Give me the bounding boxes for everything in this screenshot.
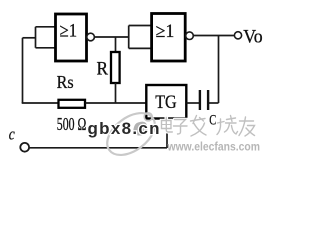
wire: U1 upper input pin <box>36 26 56 28</box>
watermark chinese char 电 <box>162 118 173 133</box>
resistor Rs <box>59 100 86 108</box>
svg-text:Rs: Rs <box>57 72 74 92</box>
svg-text:≥1: ≥1 <box>60 21 78 42</box>
svg-text:≥1: ≥1 <box>156 21 175 42</box>
wire: U2 upper input pin <box>129 25 151 27</box>
U1 output bubble <box>87 33 95 41</box>
svg-text:gbx8.cn: gbx8.cn <box>88 119 161 138</box>
wire: U1 input tie vertical <box>35 27 37 48</box>
svg-text:www.elecfans.com: www.elecfans.com <box>167 140 260 154</box>
node c terminal <box>20 143 29 152</box>
svg-text:C: C <box>209 113 216 129</box>
wire: left rail vertical <box>22 38 24 103</box>
svg-text:TG: TG <box>155 92 177 113</box>
wire: feed to U1 inputs <box>23 37 36 39</box>
svg-text:c: c <box>9 124 15 143</box>
wire: bottom rail <box>29 147 167 149</box>
wire: U2 lower input pin <box>129 47 151 49</box>
svg-text:R: R <box>97 60 109 80</box>
svg-text:500 Ω: 500 Ω <box>57 114 87 134</box>
svg-text:Vo: Vo <box>243 27 263 48</box>
op-amp U1 (OR gate ≥1 box) <box>56 14 87 61</box>
wire: TG bottom lead <box>166 119 168 149</box>
watermark chinese char 烧 <box>217 116 238 135</box>
wire: feedback drop from output node <box>218 36 220 104</box>
wire: U2 output to Vo <box>193 35 234 37</box>
watermark ellipse logo <box>100 105 163 164</box>
resistor R top lead <box>115 37 117 52</box>
capacitor C <box>200 90 208 110</box>
watermark chinese char 友 <box>239 117 255 136</box>
wire: U1 output to U2 <box>94 36 129 38</box>
wire: TG right to capacitor <box>187 102 200 104</box>
U2 output bubble <box>186 32 194 40</box>
wire: capacitor to drop wire <box>209 102 219 104</box>
resistor R bottom lead <box>115 83 117 103</box>
resistor R <box>111 52 120 83</box>
op-amp U2 (OR gate ≥1 box) <box>152 14 186 62</box>
node Vo terminal <box>234 32 241 39</box>
wire: U2 input tie vertical <box>128 26 130 49</box>
wire: left rail to Rs <box>22 102 58 104</box>
watermark chinese char 子 <box>174 120 188 135</box>
transmission gate TG <box>146 85 186 119</box>
wire: Rs to TG <box>86 102 147 104</box>
wire: U1 lower input pin <box>36 47 56 49</box>
watermark chinese char 发 <box>191 116 207 137</box>
